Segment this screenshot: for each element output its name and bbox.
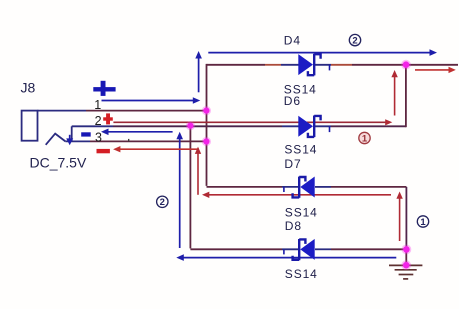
svg-text:D7: D7	[284, 157, 301, 171]
svg-text:D6: D6	[284, 94, 301, 108]
svg-text:J8: J8	[21, 80, 36, 96]
svg-text:DC_7.5V: DC_7.5V	[30, 155, 87, 171]
svg-text:D4: D4	[284, 33, 301, 47]
svg-text:SS14: SS14	[285, 267, 318, 281]
svg-text:1: 1	[94, 98, 101, 112]
svg-text:2: 2	[95, 114, 102, 128]
svg-text:SS14: SS14	[285, 206, 318, 220]
svg-text:1: 1	[420, 217, 426, 228]
svg-text:2: 2	[160, 197, 165, 208]
svg-text:D8: D8	[285, 219, 302, 233]
svg-text:SS14: SS14	[284, 142, 317, 156]
svg-text:1: 1	[362, 133, 368, 144]
svg-text:3: 3	[95, 131, 102, 145]
svg-text:2: 2	[352, 36, 357, 47]
